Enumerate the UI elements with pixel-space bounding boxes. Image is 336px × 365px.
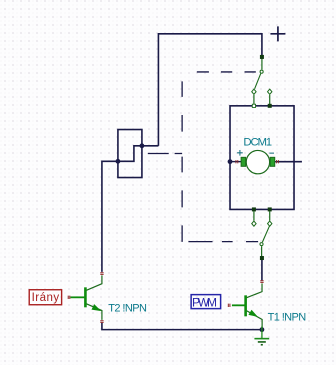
transistor T2 bar bbox=[84, 287, 87, 307]
wire top-left rail from node A to switch SW1 common bbox=[158, 34, 262, 146]
switch SW2 common pin square bbox=[260, 256, 264, 260]
svg-text:T2 !NPN: T2 !NPN bbox=[108, 303, 147, 315]
svg-text:T1 !NPN: T1 !NPN bbox=[268, 312, 307, 324]
switch SW1 left pin open square bbox=[252, 104, 255, 107]
motor DCM1 body circle bbox=[246, 150, 269, 173]
switch SW2 right throw diamond bbox=[268, 221, 272, 226]
motor right pin lead bbox=[275, 161, 278, 163]
wire node B to T2 collector bbox=[102, 161, 118, 271]
node B junction dot bbox=[116, 159, 121, 164]
motor left junction dot bbox=[228, 159, 233, 164]
node A junction dot bbox=[140, 143, 145, 148]
motor plus mark bbox=[237, 150, 243, 156]
svg-text:PWM: PWM bbox=[192, 295, 217, 309]
ground bar 2 bbox=[258, 341, 266, 343]
motor left brush bbox=[241, 157, 246, 166]
transistor T1 collector pin marker x bbox=[260, 281, 263, 283]
switch SW2 right pin bbox=[269, 211, 271, 220]
wire loop rectangle (cross-over block) bbox=[118, 130, 142, 178]
switch SW1 pivot circle bbox=[260, 70, 263, 73]
label box Irány bbox=[29, 290, 61, 305]
switch SW2 left pin bbox=[253, 211, 255, 220]
switch SW2 left pin square bbox=[252, 207, 256, 211]
power terminal + bbox=[270, 26, 285, 41]
switch SW1 right pin filled square bbox=[268, 104, 272, 108]
switch SW1 pin junction square bbox=[260, 55, 264, 59]
switch SW1 left throw pin bbox=[253, 95, 255, 105]
transistor T1 emitter pin bbox=[247, 311, 263, 330]
transistor T2 emitter arrow bbox=[92, 305, 100, 310]
switch SW2 right pin square bbox=[268, 207, 272, 211]
svg-text:DCM1: DCM1 bbox=[243, 137, 271, 149]
motor left pin marker x bbox=[236, 160, 238, 163]
svg-text:Irány: Irány bbox=[32, 292, 60, 304]
switch SW2 pivot circle bbox=[260, 243, 263, 246]
label box PWM bbox=[191, 295, 221, 309]
motor right brush bbox=[270, 157, 275, 166]
transistor T1 base pin bbox=[232, 304, 245, 306]
transistor T1 base pin marker x bbox=[228, 304, 230, 307]
ground bar 1 bbox=[254, 338, 269, 340]
switch SW1 right throw diamond bbox=[268, 89, 272, 94]
transistor T2 emitter pin bbox=[86, 304, 102, 320]
ground lead bbox=[261, 326, 263, 338]
mechanical link dashed middle horizontal bbox=[148, 153, 182, 155]
switch SW1 right throw pin bbox=[269, 95, 271, 105]
switch SW2 lever bbox=[262, 226, 269, 242]
switch SW2 left throw diamond bbox=[252, 221, 256, 226]
transistor T1 bar bbox=[244, 295, 247, 316]
transistor T1 emitter arrow bbox=[249, 311, 256, 317]
ground bar 3 bbox=[261, 344, 263, 346]
mechanical link dashed bottom horizontal bbox=[188, 241, 258, 243]
transistor T2 collector pin marker x bbox=[100, 273, 103, 275]
switch SW1 left throw diamond bbox=[252, 89, 256, 94]
transistor T2 collector pin bbox=[86, 275, 102, 290]
wire node A to top rail bbox=[142, 145, 159, 147]
ground node junction dot bbox=[260, 327, 265, 332]
switch SW1 lever bbox=[255, 74, 261, 89]
mechanical link dashed vertical bbox=[181, 81, 183, 242]
transistor T1 collector pin bbox=[247, 283, 262, 297]
wire motor right pin stub bbox=[277, 161, 302, 163]
wire inner step bbox=[118, 146, 142, 162]
switch SW1 common pin bbox=[261, 57, 263, 69]
motor left pin lead bbox=[230, 161, 241, 163]
transistor T2 base pin bbox=[70, 296, 84, 298]
wire SW2 common to T1 collector bbox=[261, 259, 263, 280]
switch SW2 common pin bbox=[261, 246, 263, 257]
mechanical link dashed top horizontal bbox=[197, 71, 256, 73]
wire T2 emitter to ground node bbox=[102, 323, 261, 330]
motor minus mark bbox=[269, 152, 274, 154]
transistor T2 emitter pin marker x bbox=[100, 321, 103, 323]
wire motor bridge box bbox=[230, 106, 294, 210]
transistor T2 base pin marker x bbox=[68, 296, 70, 299]
motor right pin marker x bbox=[276, 160, 278, 163]
